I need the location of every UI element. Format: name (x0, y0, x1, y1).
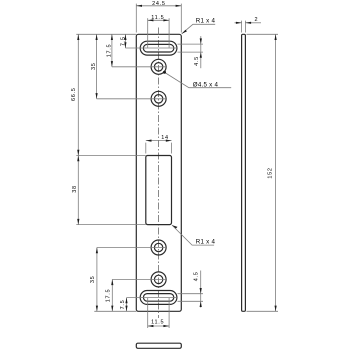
vertical centerline (158, 28, 160, 319)
dimension 35 top left (91, 34, 166, 99)
dimension 7.5 bottom left (120, 298, 177, 312)
dimension 2 side view (235, 17, 262, 33)
svg-text:4.5: 4.5 (194, 56, 200, 66)
svg-text:11.5: 11.5 (151, 320, 164, 326)
dimension 7.5 top left (120, 34, 177, 48)
dimension 14 cutout width (146, 135, 172, 154)
svg-text:4.5: 4.5 (193, 272, 199, 282)
dimension 35 bottom left (90, 248, 166, 312)
rectangular cutout (146, 156, 172, 225)
hole 3 outer (151, 240, 166, 255)
dimension 4.5 bottom right (178, 271, 204, 308)
svg-text:35: 35 (91, 62, 97, 70)
svg-text:35: 35 (90, 276, 96, 284)
hole 4 outer (151, 272, 166, 287)
leader R1 x 4 bottom (172, 225, 215, 245)
svg-text:152: 152 (267, 167, 273, 178)
dimension 11.5 bottom (148, 298, 169, 328)
dimension 17.5 bottom left (106, 279, 166, 311)
dimension 4.5 top right (178, 36, 204, 68)
svg-text:17.5: 17.5 (106, 289, 112, 303)
leader R1 x 4 top (182, 18, 216, 34)
svg-text:2: 2 (255, 17, 259, 23)
dimension 11.5 top (148, 15, 169, 48)
bottom slot outer (140, 291, 177, 305)
dimension 152 side view (247, 34, 279, 311)
dimension 38 left (72, 156, 146, 225)
svg-text:66.5: 66.5 (71, 88, 77, 102)
dimension 17.5 top left (106, 34, 166, 67)
svg-text:Ø4.5 x 4: Ø4.5 x 4 (193, 81, 219, 88)
hole 2 outer (151, 91, 166, 106)
svg-text:R1 x 4: R1 x 4 (196, 18, 216, 25)
svg-text:R1 x 4: R1 x 4 (196, 239, 216, 246)
hole 2 inner (154, 95, 162, 103)
hole 3 inner (154, 243, 162, 251)
hole 1 outer (151, 59, 166, 74)
top slot inner (143, 44, 173, 52)
bottom slot inner (143, 294, 173, 302)
svg-text:24.5: 24.5 (152, 1, 166, 7)
svg-text:7.5: 7.5 (120, 300, 126, 310)
hole 1 inner (154, 63, 162, 71)
bottom view plate (136, 343, 181, 348)
hole 4 inner (154, 275, 162, 283)
svg-text:11.5: 11.5 (151, 15, 164, 21)
svg-text:7.5: 7.5 (120, 36, 126, 46)
common bottom-left extension line (94, 310, 136, 312)
svg-text:38: 38 (72, 185, 78, 193)
common top-left extension line (76, 33, 136, 35)
svg-text:17.5: 17.5 (106, 44, 112, 58)
dimension 24.5 top (136, 1, 181, 33)
svg-text:14: 14 (161, 135, 169, 141)
leader diameter 4.5 x 4 (163, 71, 231, 89)
dimension 66.5 left (71, 34, 79, 155)
top slot outer (140, 41, 177, 55)
plate outline front view (136, 34, 181, 311)
side view plate (242, 34, 246, 311)
